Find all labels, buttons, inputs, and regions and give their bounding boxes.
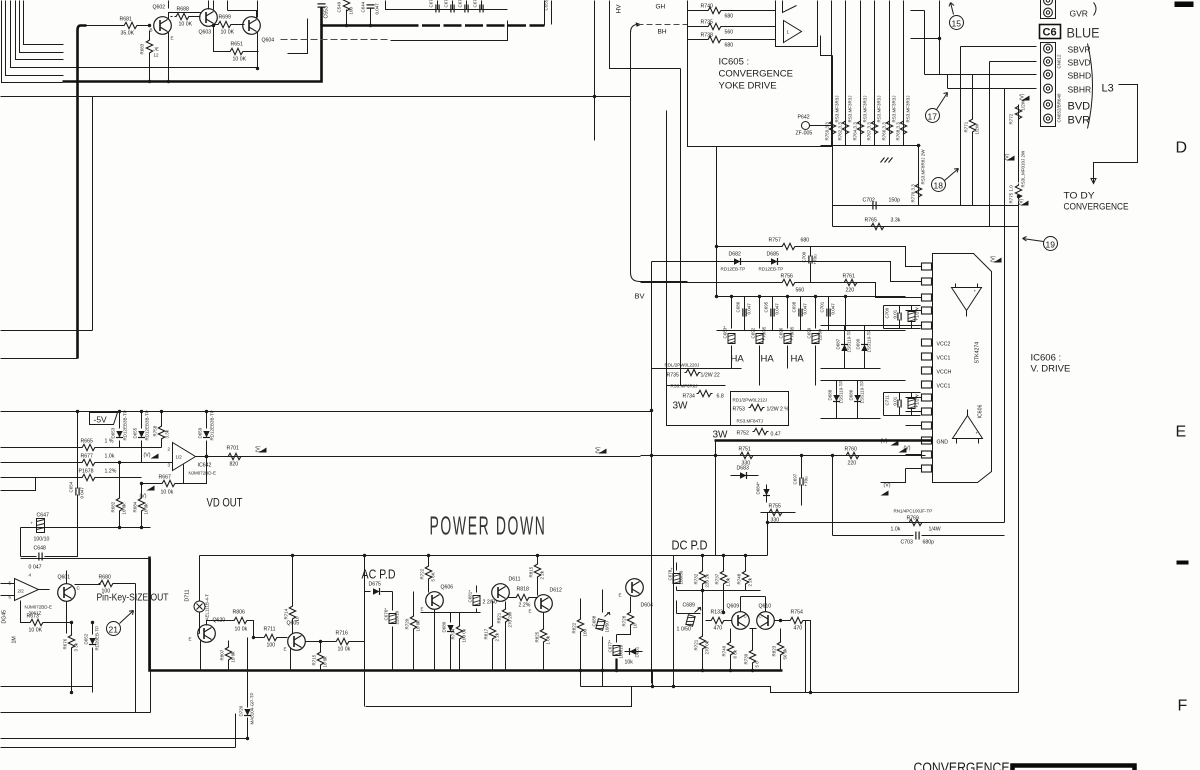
transistor Q606 [421,585,454,612]
junction dots dc [701,589,754,672]
svg-text:R768 3.3: R768 3.3 [896,122,901,141]
svg-text:R665: R665 [81,439,94,445]
svg-text:56 0k: 56 0k [783,648,788,660]
svg-text:D655: D655 [133,427,138,438]
pin VCCH [922,367,952,376]
svg-text:R822: R822 [572,622,577,633]
capacitor C709 [884,306,921,329]
svg-text:P1678: P1678 [79,469,94,475]
svg-text:E: E [284,647,287,652]
resistor R769 [768,509,1005,533]
svg-text:BLUE: BLUE [1067,25,1100,41]
op-amp IC642b [1,573,53,616]
resistor R753 [733,398,790,424]
svg-text:R754: R754 [791,610,804,616]
diode D690 [856,326,872,369]
resistor R751 [739,447,755,467]
svg-text:GH: GH [656,4,666,11]
svg-text:3: 3 [168,463,171,468]
svg-text:(V): (V) [884,483,891,489]
svg-text:(V): (V) [1005,153,1011,160]
resistor R720 [405,592,421,671]
svg-text:3 3k: 3 3k [74,642,79,651]
svg-text:0.01: 0.01 [893,309,898,318]
svg-text:MA8104-GP-TP: MA8104-GP-TP [250,692,255,724]
transistor Q605 [284,621,306,652]
svg-text:R684: R684 [133,501,138,512]
svg-text:100/50: 100/50 [679,570,684,584]
svg-text:2/2: 2/2 [18,589,25,594]
svg-text:R716: R716 [336,631,349,637]
svg-text:+: + [671,567,674,572]
svg-text:D604: D604 [641,603,654,609]
svg-text:R752: R752 [737,431,750,437]
IC606 body [933,254,992,483]
svg-text:820: 820 [230,462,239,468]
svg-text:100/10: 100/10 [619,644,624,658]
svg-text:RN1/4PC100JF-TP: RN1/4PC100JF-TP [894,509,933,514]
svg-text:VCC1: VCC1 [937,384,951,390]
svg-text:(V): (V) [1020,93,1026,100]
svg-text:R715: R715 [312,654,317,665]
svg-text:C696: C696 [779,327,784,338]
svg-text:D684*: D684* [756,482,761,495]
label -5V [90,413,118,425]
resistor R757 [715,238,922,267]
junction dots rails [650,295,834,524]
svg-text:R769: R769 [907,516,920,522]
diode D682 [652,252,922,282]
svg-text:CN652/BR648: CN652/BR648 [1057,93,1062,123]
svg-text:R721: R721 [694,639,699,650]
svg-text:R772: R772 [1009,113,1014,124]
pin 15 [922,465,932,472]
pin 4 [922,307,932,314]
svg-text:RDL/2PW0L220J: RDL/2PW0L220J [665,363,700,368]
svg-text:R775 1.0: R775 1.0 [1009,185,1014,204]
capacitor C674 [458,0,469,13]
op-amp U606b [953,410,983,444]
power symbol mid [596,446,607,453]
svg-text:C701: C701 [820,301,825,312]
wire top box with caps [386,1,508,41]
svg-text:0.47: 0.47 [771,432,781,438]
wire box top rail [200,555,768,557]
svg-text:D652: D652 [84,633,89,644]
svg-text:R817: R817 [484,628,489,639]
resistor R651 [214,26,259,63]
svg-text:RD1/2PW0L212J: RD1/2PW0L212J [733,398,768,403]
svg-text:100 0k: 100 0k [462,628,467,642]
svg-text:Pin-Key-SIZE OUT: Pin-Key-SIZE OUT [97,592,169,604]
svg-text:TO DY: TO DY [1064,191,1096,202]
svg-text:C677*: C677* [608,640,613,653]
svg-text:C654: C654 [69,481,74,492]
op-amp U606a [952,284,982,317]
power box outline [667,341,789,426]
resistor R760 [845,447,861,467]
wire thick vertical bus [78,26,87,359]
black frame box [1013,766,1135,770]
resistor R739 [744,649,760,671]
resistor R758 [153,410,170,448]
wire x652 x673 [653,556,674,687]
svg-text:680p: 680p [923,540,935,546]
svg-text:1.0k: 1.0k [726,577,731,586]
wire rail y456 [196,456,641,458]
wire vertical branch [92,97,94,331]
svg-text:YOKE DRIVE: YOKE DRIVE [719,81,777,92]
svg-text:C703: C703 [901,540,914,546]
resistor R815 [529,554,545,596]
svg-text:R677: R677 [81,454,94,460]
svg-text:R739: R739 [744,653,749,664]
svg-text:BH: BH [658,29,667,36]
junction dots bottom [579,669,675,688]
resistor R772 [1009,99,1026,124]
svg-text:Q602: Q602 [153,5,166,11]
resistor R684 [133,482,149,528]
svg-text:D711: D711 [185,589,191,601]
wire rail y411 [1,411,652,413]
wire horizontal net [1,96,631,98]
resistor R676 [63,621,79,694]
svg-text:10 0k: 10 0k [231,651,236,663]
resistor R738 [688,33,776,49]
resistor R770 [911,149,926,203]
svg-text:BVR: BVR [1068,115,1091,127]
wire cap block top rail [717,296,906,298]
svg-text:+70u: +70u [804,476,809,487]
transistor Q620 [189,613,226,643]
wire x715 drop [715,441,717,556]
resistor R755 [761,504,796,524]
capacitor C654 [69,410,85,528]
svg-text:2 2k: 2 2k [495,632,500,641]
svg-text:R667: R667 [159,475,172,481]
resistor R825 [535,613,551,671]
svg-text:D685: D685 [767,252,780,258]
svg-text:R676: R676 [63,638,68,649]
wire Q620 emitter [200,641,202,671]
ground [881,158,893,163]
wire feeds to connector [911,1,1037,227]
diode D720 [239,638,255,741]
svg-text:GND: GND [937,440,949,446]
svg-text:D653: D653 [111,427,116,438]
resistor R667 feedback [142,455,209,496]
svg-text:220 2k: 220 2k [705,573,710,587]
resistor R649 [337,0,354,27]
svg-text:R764 3.3: R764 3.3 [853,122,858,141]
capacitor C553 [318,4,330,26]
svg-text:R806: R806 [233,610,246,616]
svg-text:R651: R651 [231,42,244,48]
svg-text:Q605: Q605 [287,621,300,627]
wire Q602 collector [169,13,201,19]
svg-text:C698: C698 [792,301,797,312]
svg-text:680: 680 [725,43,734,49]
svg-text:1/2: 1/2 [176,455,183,460]
svg-text:IC606: IC606 [978,405,984,419]
svg-text:1.2%: 1.2% [105,469,117,475]
junction [917,144,920,147]
svg-text:C644: C644 [361,1,366,12]
svg-text:0.047: 0.047 [831,303,836,315]
svg-text:R825: R825 [535,631,540,642]
svg-text:C702: C702 [863,198,876,204]
svg-text:0 047: 0 047 [80,487,85,499]
op-amp U605a [783,1,797,13]
svg-text:RD12EB3B-TP: RD12EB3B-TP [123,410,128,440]
svg-text:C688: C688 [592,615,597,626]
svg-text:10k: 10k [625,660,634,666]
svg-text:10 0k: 10 0k [416,620,421,632]
svg-text:D659: D659 [198,427,203,438]
node junctions [148,24,151,27]
svg-text:DG45: DG45 [2,610,8,624]
resistor R682 [111,461,127,528]
svg-text:VCC1: VCC1 [937,356,951,362]
svg-text:0.01: 0.01 [893,396,898,405]
wire bottom rail [78,527,151,529]
resistor R722 [420,554,436,593]
wire x602 [602,590,604,687]
svg-text:C686: C686 [736,301,741,312]
svg-text:CONVERGENCE: CONVERGENCE [1064,202,1129,213]
svg-text:R735: R735 [667,373,680,379]
svg-text:(V): (V) [1019,198,1025,205]
svg-text:3W: 3W [673,401,689,412]
svg-text:+70/35: +70/35 [762,326,767,340]
wire corner x609 [610,1,681,69]
svg-text:3.3k: 3.3k [165,429,170,438]
svg-text:E: E [619,593,622,598]
power symbol corner [991,255,1002,262]
svg-text:560: 560 [796,288,805,294]
svg-text:100: 100 [349,6,354,14]
svg-text:R767 3.3: R767 3.3 [867,122,872,141]
circled 19 [1023,237,1058,251]
svg-text:VD OUT: VD OUT [207,496,244,510]
svg-text:(V): (V) [144,453,151,459]
svg-text:C6: C6 [1043,27,1057,39]
power symbol GND pin [881,439,899,446]
svg-text:GVR: GVR [1070,9,1088,19]
resistor R817 [484,601,500,671]
resistor R677 [1,454,173,466]
wire cap block verticals [717,297,906,331]
potentiometer C689 [677,601,701,633]
svg-text:C689: C689 [683,603,696,609]
svg-text:C647: C647 [37,513,50,519]
svg-text:10 0K: 10 0K [179,22,193,28]
svg-text:R701: R701 [227,446,240,452]
svg-text:RD12EB-TP: RD12EB-TP [721,267,746,272]
svg-text:R734: R734 [683,394,696,400]
svg-text:R688: R688 [177,7,190,13]
pin GND [922,437,949,446]
svg-text:5 6K: 5 6K [431,572,436,581]
svg-text:C697: C697 [793,473,798,484]
capacitor C677 [608,635,624,671]
svg-text:POWER DOWN: POWER DOWN [430,511,547,541]
IC605 block outline [688,1,832,147]
diode D686 [849,381,865,419]
wire x364 vertical [364,556,366,707]
svg-text:1.0k: 1.0k [891,527,901,533]
wire Q606 down [421,610,481,671]
svg-text:C709: C709 [885,307,890,318]
pin 10 [922,394,932,401]
capacitor C677 [429,0,440,13]
transistor Q612 [529,588,563,614]
wire Q605 emitter [290,649,292,671]
svg-text:IC642: IC642 [198,463,212,469]
resistor R768 [896,95,911,140]
resistor R737 [715,554,731,591]
svg-text:RD12EB3B-TP: RD12EB3B-TP [210,410,215,440]
svg-text:SBHR: SBHR [1068,85,1092,95]
svg-text:C553: C553 [324,6,330,19]
svg-text:D682: D682 [729,252,742,258]
svg-text:SBVR: SBVR [1068,45,1091,55]
svg-text:HA: HA [731,354,745,365]
svg-text:1 0k: 1 0k [546,635,551,644]
svg-text:10/50: 10/50 [605,621,610,633]
capacitor C676 [384,592,400,671]
resistor R665 [1,439,162,451]
svg-text:3.3k: 3.3k [891,218,901,224]
pin 5 [922,322,932,329]
wire thick horizontal bus [63,26,401,82]
diode D681 [625,646,643,665]
svg-text:R680: R680 [99,575,112,581]
svg-text:RS3.MF3R3J: RS3.MF3R3J [863,95,868,122]
svg-text:150p: 150p [889,198,901,204]
svg-text:Q604: Q604 [262,38,275,44]
pin VCC2 [922,339,951,348]
svg-text:470: 470 [794,626,803,632]
transistor Q611 [492,577,521,602]
resistor R807 [220,641,236,671]
svg-text:(V): (V) [881,439,888,445]
svg-text:C678: C678 [444,0,449,8]
svg-text:R748: R748 [737,573,742,584]
power symbol V3 [1017,195,1029,206]
svg-text:0 047: 0 047 [29,565,42,571]
wire to left edge [1,358,78,360]
resistor R767 [867,95,882,140]
capacitor C679 [473,0,484,13]
svg-text:NJM072BD-E: NJM072BD-E [189,471,217,476]
resistor R756 [641,274,922,298]
svg-text:0.047: 0.047 [375,3,380,15]
svg-text:R722: R722 [420,568,425,579]
wire corner box [288,19,308,54]
wire pin stubs [906,247,922,469]
diode D683 [731,466,759,480]
svg-text:1 %: 1 % [105,439,114,445]
circled 15 [949,3,964,30]
svg-text:100/10: 100/10 [34,537,50,543]
wire L3 to DY [1091,85,1138,184]
svg-text:R738: R738 [701,33,714,39]
svg-text:C674: C674 [458,0,463,8]
resistor R699 [215,15,245,36]
svg-text:D688: D688 [828,389,833,400]
wire horizontal to left edge [1,330,93,332]
wire thick left bus [150,557,783,671]
svg-text:21: 21 [109,625,119,635]
connector CN612 box [1041,43,1056,127]
svg-text:100: 100 [583,628,588,636]
svg-text:270 0k: 270 0k [705,640,710,654]
svg-text:-5V: -5V [94,415,108,425]
svg-text:R735: R735 [701,20,714,26]
diode D652 [84,621,100,693]
svg-text:RS3.MF3R3J: RS3.MF3R3J [848,95,853,122]
svg-text:22/50: 22/50 [818,329,823,341]
resistor R721 [694,591,710,671]
svg-text:1.0k: 1.0k [105,454,115,460]
svg-text:D686: D686 [849,389,854,400]
capacitor C712 [908,393,920,416]
svg-text:3W: 3W [713,430,729,441]
svg-text:C677: C677 [429,0,434,8]
resistor R752 [737,428,781,437]
svg-text:17: 17 [928,112,938,122]
svg-text:10 0k: 10 0k [338,647,351,653]
svg-text:R758: R758 [153,425,158,436]
wire x832 drop [832,456,834,536]
black page marker right-middle [1177,561,1189,565]
transistor Q604 [243,17,275,44]
black page marker top-right [1175,2,1194,8]
svg-text:AEL111B-4-T: AEL111B-4-T [205,594,210,621]
capacitor C692 [751,326,767,343]
wire vertical x1018 lower [1018,201,1020,693]
svg-text:+: + [974,289,977,294]
resistor R732 [694,554,710,591]
diode D675 [365,582,393,596]
transistor Q610 [757,604,775,630]
svg-text:RS3L.MF010J 2W: RS3L.MF010J 2W [1021,150,1026,188]
resistor R775 [1009,150,1026,204]
svg-text:C692: C692 [751,327,756,338]
resistor R762 [838,95,853,140]
wire drop x918 [918,146,920,206]
op-amp U605b [784,21,802,43]
svg-text:RS3.MF3R3J: RS3.MF3R3J [906,95,911,122]
svg-text:1M: 1M [12,636,18,643]
svg-text:100: 100 [267,643,276,649]
wire staircase bundle top-left [2,1,258,83]
capacitor C555 [544,0,552,25]
pin 3 [922,294,932,301]
resistor R735 power [665,363,724,400]
svg-text:R714: R714 [284,608,289,619]
diode D659 [198,410,215,458]
svg-text:10: 10 [633,623,638,629]
wire vertical x680 [680,69,682,386]
pin 11 [922,408,932,415]
svg-text:CN612: CN612 [1057,54,1062,69]
resistor R823 [772,629,788,671]
transistor Q602 [150,5,174,41]
resistor R759 [825,95,840,140]
svg-text:2 2k: 2 2k [748,577,753,586]
